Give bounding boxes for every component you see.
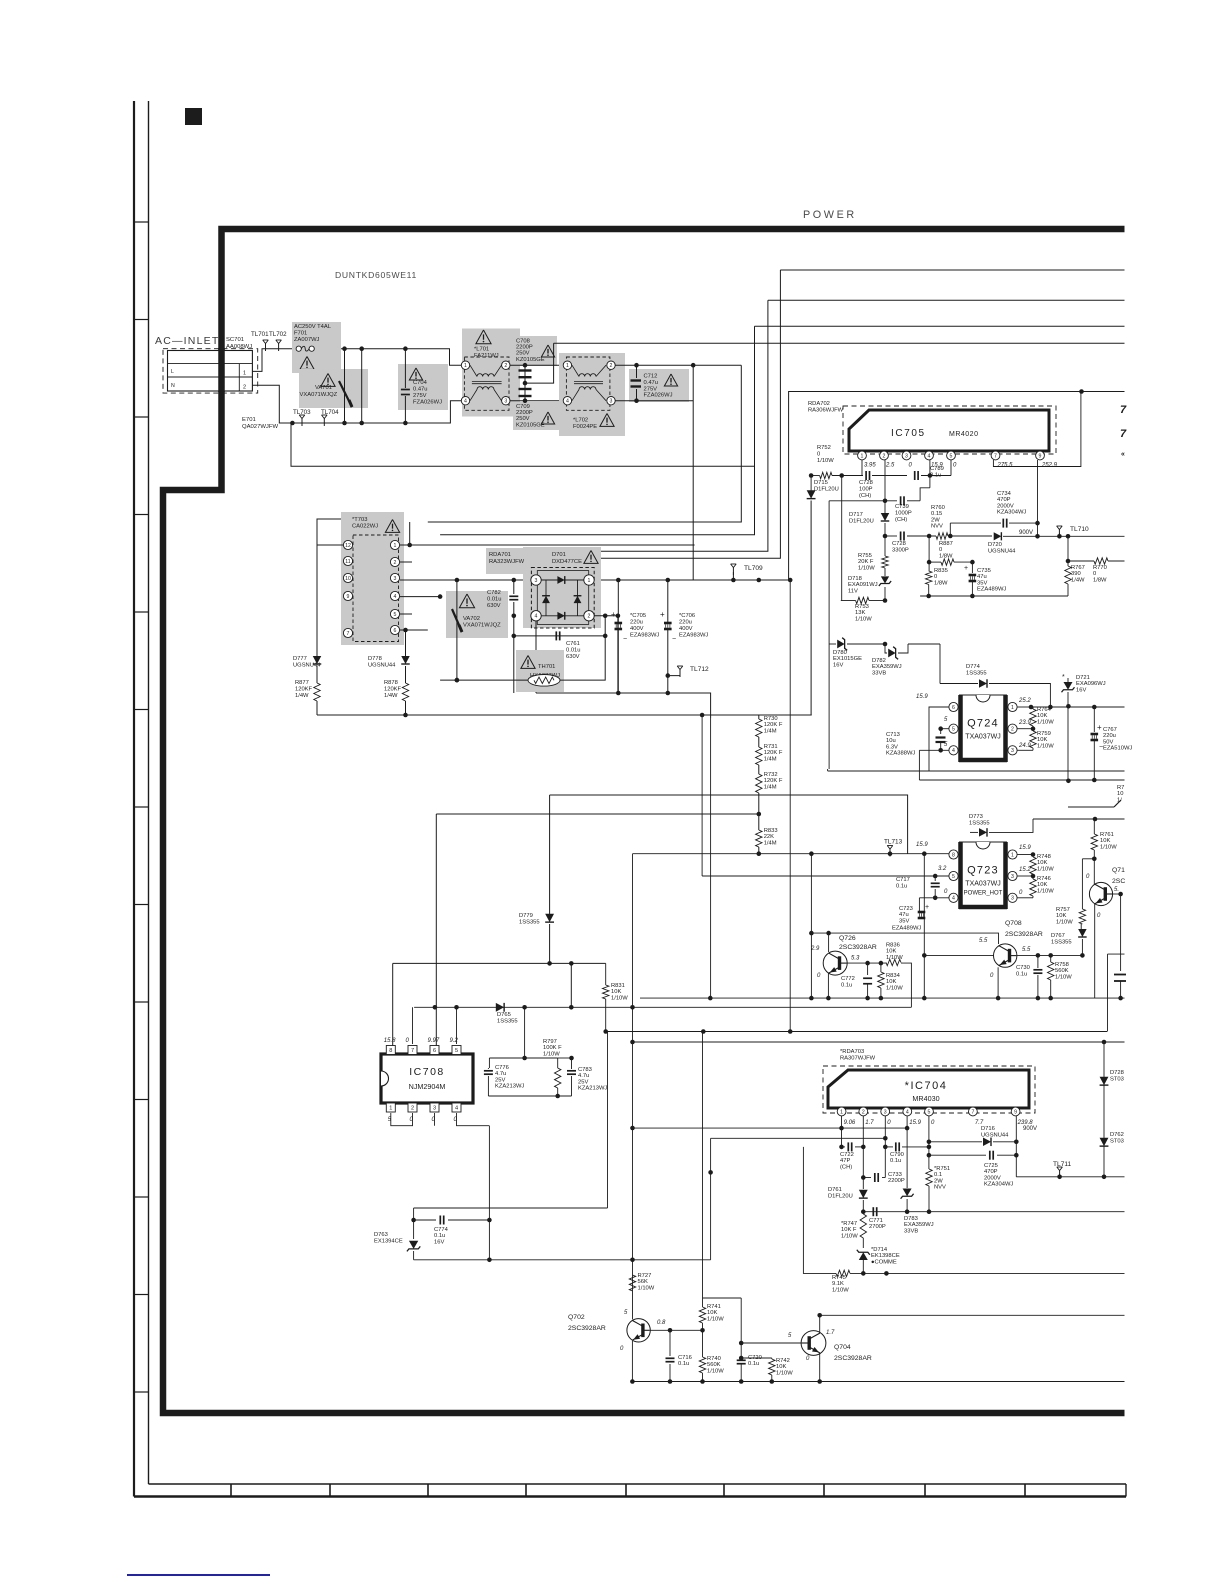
svg-text:KZ0105GE: KZ0105GE xyxy=(516,422,545,428)
svg-text:Q723: Q723 xyxy=(967,865,999,877)
svg-text:EK1398CE: EK1398CE xyxy=(871,1253,900,1259)
svg-text:MR4020: MR4020 xyxy=(949,431,978,438)
wire Q708 bar output xyxy=(1017,954,1083,956)
svg-text:R759: R759 xyxy=(1037,731,1051,737)
svg-text:275.5: 275.5 xyxy=(997,463,1014,469)
svg-text:AA008WJ: AA008WJ xyxy=(226,344,252,350)
svg-text:C734: C734 xyxy=(997,491,1012,497)
page frame left ruler ticks xyxy=(134,221,149,223)
svg-text:C725: C725 xyxy=(984,1163,998,1169)
capacitor C728 3300P xyxy=(885,535,897,537)
wire Q723 pin3a xyxy=(1017,875,1033,877)
svg-text:EXA091WJ: EXA091WJ xyxy=(848,582,878,588)
capacitor C709 xyxy=(513,402,559,430)
svg-text:2SC3928AR: 2SC3928AR xyxy=(1005,931,1043,938)
svg-text:R835: R835 xyxy=(934,568,948,574)
wire Q724 pin6 xyxy=(929,707,949,771)
svg-text:2: 2 xyxy=(883,453,886,459)
svg-text:RA306WJFW: RA306WJFW xyxy=(808,408,844,414)
wire T703 pin3 HV rail xyxy=(400,579,789,581)
wire jog y1208 xyxy=(414,1207,608,1209)
svg-text:R755: R755 xyxy=(858,553,872,559)
svg-text:252.9: 252.9 xyxy=(1041,463,1058,469)
svg-text:D718: D718 xyxy=(848,576,862,582)
svg-text:1/10W: 1/10W xyxy=(1037,743,1054,749)
svg-text:C767: C767 xyxy=(1103,727,1117,733)
svg-text:3: 3 xyxy=(535,578,538,584)
svg-text:*D714: *D714 xyxy=(871,1247,888,1253)
wire Q708 emitter xyxy=(997,967,999,998)
svg-text:16V: 16V xyxy=(434,1239,444,1245)
svg-text:9: 9 xyxy=(1014,1109,1017,1115)
wire IC705 pin4 jog xyxy=(929,460,931,488)
wire riser x827 xyxy=(827,769,829,771)
svg-text:1/10W: 1/10W xyxy=(707,1368,724,1374)
test point TL713 xyxy=(889,851,891,854)
wire TL711 rail xyxy=(1016,1176,1124,1178)
svg-text:*RDA703: *RDA703 xyxy=(840,1049,864,1055)
svg-text:R732: R732 xyxy=(764,772,778,778)
test point TL709 xyxy=(732,572,734,580)
svg-text:10K: 10K xyxy=(1100,838,1110,844)
wire bus line y301 xyxy=(768,299,1125,301)
svg-text:Q724: Q724 xyxy=(967,718,999,730)
svg-text:120K F: 120K F xyxy=(764,778,783,784)
svg-text:*C705: *C705 xyxy=(630,613,646,619)
svg-text:R741: R741 xyxy=(707,1304,721,1310)
svg-text:IC708: IC708 xyxy=(409,1066,445,1078)
svg-text:1/10W: 1/10W xyxy=(638,1285,655,1291)
svg-text:C772: C772 xyxy=(841,976,855,982)
svg-text:EZA489WJ: EZA489WJ xyxy=(892,926,921,932)
svg-text:5.: 5. xyxy=(1114,887,1119,893)
svg-text:390: 390 xyxy=(1071,571,1081,577)
svg-text:R833: R833 xyxy=(764,828,778,834)
wire Q723 pin5 rail y876 xyxy=(702,875,949,877)
wire riser x489 xyxy=(488,1126,490,1260)
svg-text:TL702: TL702 xyxy=(269,331,287,338)
svg-text:VA702: VA702 xyxy=(463,616,480,622)
wire Q724 pin1 node xyxy=(1017,706,1033,708)
svg-text:RDA701: RDA701 xyxy=(489,552,511,558)
resistor R730 xyxy=(758,715,760,719)
svg-text:50V: 50V xyxy=(1103,739,1113,745)
svg-text:120K F: 120K F xyxy=(764,722,783,728)
svg-text:3: 3 xyxy=(433,1106,436,1112)
capacitor C708 xyxy=(513,336,557,366)
svg-text:15.8: 15.8 xyxy=(384,1038,396,1044)
connector SC701 AC inlet xyxy=(163,349,258,393)
svg-text:33VB: 33VB xyxy=(872,670,886,676)
svg-text:R730: R730 xyxy=(764,716,778,722)
svg-text:35V: 35V xyxy=(899,918,909,924)
svg-text:−: − xyxy=(1099,744,1103,751)
svg-text:IC705: IC705 xyxy=(891,428,926,439)
svg-text:5: 5 xyxy=(394,612,397,618)
svg-text:EZA510WJ: EZA510WJ xyxy=(1103,746,1132,752)
wire IC705 pin5 drop xyxy=(950,460,952,476)
svg-text:EZA983WJ: EZA983WJ xyxy=(679,633,708,639)
wire node y596 xyxy=(920,595,1068,597)
svg-text:R887: R887 xyxy=(939,541,953,547)
svg-text:4: 4 xyxy=(906,1109,909,1115)
resistor R731 xyxy=(758,737,760,747)
svg-text:C712: C712 xyxy=(644,374,658,380)
svg-text:56K: 56K xyxy=(638,1279,648,1285)
svg-text:NJM2904M: NJM2904M xyxy=(409,1082,446,1091)
svg-text:15.2: 15.2 xyxy=(1019,867,1031,873)
wire riser x924 (C723 branch) xyxy=(923,854,925,998)
svg-text:1/10W: 1/10W xyxy=(832,1287,849,1293)
wire negative rail y693 xyxy=(536,693,711,718)
svg-text:1/10W: 1/10W xyxy=(858,565,875,571)
svg-text:D779: D779 xyxy=(519,913,533,919)
fuse F701 xyxy=(292,322,341,373)
svg-text:FZA026WJ: FZA026WJ xyxy=(413,400,442,406)
svg-text:Q726: Q726 xyxy=(839,935,856,942)
svg-text:1/10W: 1/10W xyxy=(1056,919,1073,925)
svg-text:●COMME: ●COMME xyxy=(871,1259,897,1265)
svg-text:EX1015GE: EX1015GE xyxy=(833,656,862,662)
wire D728 column xyxy=(1103,1042,1105,1177)
svg-text:Q708: Q708 xyxy=(1005,920,1022,927)
wire riser x841 xyxy=(841,476,843,601)
svg-text:120K F: 120K F xyxy=(764,750,783,756)
svg-text:220u: 220u xyxy=(1103,733,1116,739)
svg-text:3: 3 xyxy=(1011,874,1014,880)
wire Q726 collector xyxy=(828,933,830,952)
svg-text:5: 5 xyxy=(952,874,955,880)
wire riser x811 xyxy=(810,854,812,998)
svg-text:C723: C723 xyxy=(899,906,913,912)
svg-text:POWER: POWER xyxy=(803,209,857,221)
svg-text:EXA359WJ: EXA359WJ xyxy=(872,664,902,670)
svg-text:(CH): (CH) xyxy=(859,493,871,499)
wire Q723 pin3b xyxy=(1017,897,1033,899)
resistor R732 xyxy=(758,765,760,774)
svg-text:N: N xyxy=(171,383,175,389)
wire Q708 base xyxy=(924,954,994,956)
svg-text:−: − xyxy=(672,636,676,643)
svg-text:1: 1 xyxy=(861,453,864,459)
svg-text:15.9: 15.9 xyxy=(1019,845,1031,851)
svg-text:R757: R757 xyxy=(1056,907,1070,913)
svg-text:3: 3 xyxy=(610,399,613,405)
svg-text:(CH): (CH) xyxy=(895,517,907,523)
svg-text:TL703: TL703 xyxy=(293,409,311,416)
svg-text:C735: C735 xyxy=(977,568,991,574)
wire Q726 base output xyxy=(847,962,868,964)
svg-text:1/10W: 1/10W xyxy=(817,458,834,464)
svg-text:AC250V T4AL: AC250V T4AL xyxy=(294,324,332,330)
svg-text:F701: F701 xyxy=(294,331,307,337)
svg-text:35V: 35V xyxy=(977,580,987,586)
svg-text:0: 0 xyxy=(939,547,942,553)
svg-text:120KF: 120KF xyxy=(384,686,402,692)
wire between chokes xyxy=(510,364,566,366)
wire bus line y326 xyxy=(755,325,1125,327)
wire AC N rail xyxy=(615,400,693,402)
wire Q712 emitter drop xyxy=(1094,904,1096,998)
page frame bottom ruler strip xyxy=(149,1483,1127,1485)
svg-text:*L702: *L702 xyxy=(573,418,588,424)
svg-text:C708: C708 xyxy=(516,339,530,345)
wire bus drop x767 xyxy=(597,300,768,551)
wire IC705 pin9 drop xyxy=(1037,460,1039,536)
svg-text:250V: 250V xyxy=(516,351,530,357)
svg-text:0.47u: 0.47u xyxy=(644,380,659,386)
wire bus drop x780 xyxy=(597,270,780,558)
svg-text:275V: 275V xyxy=(644,386,658,392)
wire Q708 collector feed xyxy=(811,933,998,944)
svg-text:D728: D728 xyxy=(1110,1070,1124,1076)
svg-text:47P: 47P xyxy=(840,1158,850,1164)
wire IC704 pin9 drop xyxy=(1015,1116,1017,1177)
svg-text:4: 4 xyxy=(952,748,955,754)
svg-text:3.95: 3.95 xyxy=(864,463,876,469)
svg-text:7: 7 xyxy=(971,1109,974,1115)
wire HV rail right portion xyxy=(731,578,736,583)
wire T703 pin6 run xyxy=(400,629,428,631)
svg-text:100P: 100P xyxy=(859,486,873,492)
svg-text:10K: 10K xyxy=(1037,737,1047,743)
svg-text:630V: 630V xyxy=(566,654,580,660)
svg-text:ST03: ST03 xyxy=(1110,1138,1124,1144)
svg-text:*C706: *C706 xyxy=(679,613,695,619)
svg-text:1: 1 xyxy=(588,578,591,584)
svg-text:10K: 10K xyxy=(776,1364,786,1370)
svg-text:D767: D767 xyxy=(1051,933,1065,939)
svg-text:R753: R753 xyxy=(855,604,869,610)
svg-text:VXA071WJQZ: VXA071WJQZ xyxy=(463,623,501,629)
svg-text:MR4030: MR4030 xyxy=(912,1094,939,1103)
svg-text:0.47u: 0.47u xyxy=(413,387,428,393)
svg-text:5.5: 5.5 xyxy=(1022,947,1031,953)
svg-text:D720: D720 xyxy=(988,542,1002,548)
wire IC705 pin2 riser chain xyxy=(884,460,886,513)
wire T703 pin4 stub xyxy=(400,596,440,598)
svg-text:9.1K: 9.1K xyxy=(832,1281,844,1287)
svg-text:9: 9 xyxy=(347,594,350,600)
svg-text:TXA037WJ: TXA037WJ xyxy=(965,734,1000,741)
svg-text:7: 7 xyxy=(1120,404,1127,416)
svg-text:7: 7 xyxy=(347,631,350,637)
capacitor C728 100P xyxy=(865,471,867,480)
svg-text:0.1: 0.1 xyxy=(934,1172,942,1178)
capacitor C789 xyxy=(914,471,916,480)
svg-text:R878: R878 xyxy=(384,680,398,686)
svg-text:2W: 2W xyxy=(931,517,940,523)
svg-text:3300P: 3300P xyxy=(892,547,909,553)
svg-text:2: 2 xyxy=(504,363,507,369)
wire riser x702 pin5 feed xyxy=(701,715,703,876)
svg-text:1SS355: 1SS355 xyxy=(969,820,990,826)
svg-text:1/10W: 1/10W xyxy=(1037,888,1054,894)
svg-text:2: 2 xyxy=(411,1106,414,1112)
svg-text:15.9: 15.9 xyxy=(909,1120,921,1126)
svg-text:560K: 560K xyxy=(707,1362,721,1368)
svg-text:275V: 275V xyxy=(413,393,427,399)
svg-text:6: 6 xyxy=(952,705,955,711)
svg-text:TL701: TL701 xyxy=(251,331,269,338)
svg-text:10u: 10u xyxy=(886,738,896,744)
wire bridge minus drop xyxy=(535,621,537,693)
test point TL703 xyxy=(301,419,303,427)
varistor VA701 xyxy=(299,369,368,408)
svg-text:9.2: 9.2 xyxy=(450,1038,459,1044)
wire Q724 pin3 xyxy=(1017,749,1033,751)
wire node x741 xyxy=(739,1356,744,1361)
wire IC708 pin risers bottom xyxy=(391,1113,413,1126)
svg-text:1: 1 xyxy=(464,363,467,369)
wire hot rails y771 y780 xyxy=(828,770,1125,772)
svg-text:R797: R797 xyxy=(543,1039,557,1045)
svg-text:1/10W: 1/10W xyxy=(855,616,872,622)
svg-text:C789: C789 xyxy=(930,466,944,472)
svg-text:KZA388WJ: KZA388WJ xyxy=(886,751,915,757)
svg-text:1/4W: 1/4W xyxy=(1071,577,1085,583)
svg-text:20K F: 20K F xyxy=(858,559,874,565)
wire drop x437 xyxy=(435,814,437,1047)
svg-text:(CH): (CH) xyxy=(840,1164,852,1170)
svg-text:5: 5 xyxy=(950,453,953,459)
svg-text:EZA983WJ: EZA983WJ xyxy=(630,633,659,639)
wire Q723 pin1 node xyxy=(1017,854,1033,856)
svg-text:2SC3928AR: 2SC3928AR xyxy=(839,944,877,951)
test point TL702 xyxy=(278,344,280,352)
svg-text:11V: 11V xyxy=(848,588,858,594)
svg-text:R727: R727 xyxy=(638,1273,652,1279)
wire riser x632 TL713 feed xyxy=(632,854,634,1319)
svg-text:16V: 16V xyxy=(1076,687,1086,693)
svg-text:D778: D778 xyxy=(368,656,382,662)
wire rail y1211 xyxy=(863,1211,1124,1213)
svg-text:5: 5 xyxy=(952,727,955,733)
test point TL701 xyxy=(265,344,267,352)
svg-text:R758: R758 xyxy=(1055,962,1069,968)
svg-text:1/8W: 1/8W xyxy=(934,580,948,586)
thermistor TH701 xyxy=(516,650,564,692)
svg-text:220u: 220u xyxy=(679,620,692,626)
line filter choke L702 xyxy=(559,353,625,436)
svg-text:EXA096WJ: EXA096WJ xyxy=(1076,681,1106,687)
svg-text:1.7: 1.7 xyxy=(865,1120,874,1126)
svg-text:1/10W: 1/10W xyxy=(1100,844,1117,850)
svg-text:R7: R7 xyxy=(1117,785,1124,791)
svg-text:KZA213WJ: KZA213WJ xyxy=(578,1086,607,1092)
svg-text:10K: 10K xyxy=(1037,713,1047,719)
svg-text:*R751: *R751 xyxy=(934,1166,950,1172)
svg-text:ST03: ST03 xyxy=(1110,1076,1124,1082)
svg-text:900V: 900V xyxy=(1023,1126,1037,1132)
svg-text:2: 2 xyxy=(588,614,591,620)
svg-text:Q702: Q702 xyxy=(568,1314,585,1321)
wire rail y1031 xyxy=(606,1031,1107,1033)
test point TL710 xyxy=(1057,534,1062,539)
svg-text:D762: D762 xyxy=(1110,1132,1124,1138)
svg-text:2000V: 2000V xyxy=(984,1175,1001,1181)
svg-text:C716: C716 xyxy=(678,1355,692,1361)
wire Q702 base output xyxy=(650,1329,703,1331)
svg-text:D780: D780 xyxy=(833,650,847,656)
svg-text:R764: R764 xyxy=(1037,707,1052,713)
svg-text:D774: D774 xyxy=(966,664,981,670)
wire feedback y814 xyxy=(436,813,759,815)
wire T703 pin1 run xyxy=(400,544,695,546)
wire E701 ground run xyxy=(291,423,755,466)
svg-text:6: 6 xyxy=(394,628,397,634)
svg-text:9.06: 9.06 xyxy=(844,1120,856,1126)
svg-text:24.9: 24.9 xyxy=(1018,743,1031,749)
svg-text:0.1u: 0.1u xyxy=(748,1361,759,1367)
wire bridge pin2 run xyxy=(594,615,618,617)
svg-text:C728: C728 xyxy=(859,480,873,486)
svg-text:10K: 10K xyxy=(707,1310,717,1316)
svg-text:C776: C776 xyxy=(495,1065,509,1071)
IC708 top pins xyxy=(386,1046,395,1055)
svg-text:+: + xyxy=(1097,723,1102,732)
svg-text:1/10W: 1/10W xyxy=(707,1316,724,1322)
bridge rectifier D701 xyxy=(486,548,601,574)
transformer T703 xyxy=(341,512,404,645)
svg-text:NVV: NVV xyxy=(934,1185,946,1191)
capacitor on right edge xyxy=(1114,974,1126,976)
svg-text:4: 4 xyxy=(535,614,538,620)
svg-text:D765: D765 xyxy=(497,1012,511,1018)
svg-text:13K: 13K xyxy=(855,610,865,616)
test point TL712 xyxy=(668,674,680,676)
svg-text:470P: 470P xyxy=(997,497,1011,503)
svg-text:5.3: 5.3 xyxy=(851,956,860,962)
wire thermistor branch xyxy=(440,679,528,681)
svg-text:0.1u: 0.1u xyxy=(896,883,907,889)
wire Q724 pin4 xyxy=(919,749,949,751)
svg-text:4.7u: 4.7u xyxy=(495,1071,506,1077)
svg-text:*IC704: *IC704 xyxy=(905,1080,948,1092)
svg-text:D763: D763 xyxy=(374,1232,388,1238)
wire rail y1259 xyxy=(414,1259,711,1261)
wire Q723 pin4 xyxy=(919,897,949,899)
svg-text:C722: C722 xyxy=(840,1152,854,1158)
wire C708 midpoint to bus xyxy=(525,343,554,383)
capacitor C705 xyxy=(617,580,619,622)
svg-text:C713: C713 xyxy=(886,732,900,738)
svg-text:C709: C709 xyxy=(516,404,530,410)
svg-text:0.8: 0.8 xyxy=(657,1320,666,1326)
svg-text:2W: 2W xyxy=(934,1178,943,1184)
svg-text:ZA007WJ: ZA007WJ xyxy=(294,337,320,343)
svg-text:1: 1 xyxy=(1011,852,1014,858)
svg-text:1: 1 xyxy=(566,363,569,369)
svg-text:1: 1 xyxy=(394,543,397,549)
svg-text:*T703: *T703 xyxy=(352,517,367,523)
svg-text:TXA037WJ: TXA037WJ xyxy=(965,881,1000,888)
svg-text:8: 8 xyxy=(952,852,955,858)
wire Q704 emitter xyxy=(819,1353,821,1382)
svg-text:R740: R740 xyxy=(707,1356,721,1362)
svg-text:R767: R767 xyxy=(1071,565,1085,571)
svg-text:25V: 25V xyxy=(495,1077,505,1083)
svg-text:5: 5 xyxy=(455,1048,458,1054)
svg-text:0: 0 xyxy=(1093,571,1096,577)
svg-text:D1FL20U: D1FL20U xyxy=(849,518,874,524)
wire IC708 pin7 riser xyxy=(412,1007,414,1044)
svg-text:VA701: VA701 xyxy=(315,385,332,391)
svg-text:7: 7 xyxy=(994,453,997,459)
svg-text:D1FL20U: D1FL20U xyxy=(814,486,839,492)
svg-text:C717: C717 xyxy=(896,877,910,883)
svg-text:4: 4 xyxy=(928,453,931,459)
